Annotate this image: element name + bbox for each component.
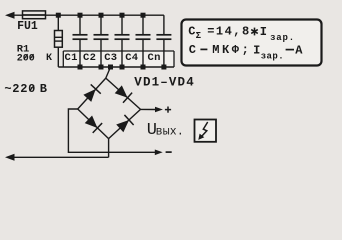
diode VD4 on bottom-right edge bbox=[115, 115, 133, 133]
svg-text:=14,8: =14,8 bbox=[207, 25, 251, 39]
svg-text:I: I bbox=[260, 25, 267, 39]
background paper bbox=[0, 0, 342, 169]
capacitor C4 bbox=[136, 15, 151, 67]
wire: bottom bus bbox=[58, 66, 174, 68]
node: bottom left AC arrow bbox=[5, 154, 15, 161]
svg-text:FU1: FU1 bbox=[17, 20, 38, 33]
label strip box around C1..Cn designators bbox=[63, 51, 174, 67]
capacitor C2 bbox=[94, 15, 109, 67]
node: left AC arrow bbox=[5, 12, 15, 19]
svg-text:Σ: Σ bbox=[196, 31, 202, 41]
svg-text:вых.: вых. bbox=[156, 125, 184, 138]
wire: left vertex to minus output bbox=[68, 109, 155, 152]
lighter paper patches bbox=[63, 20, 321, 142]
diode VD1 on left-top edge bbox=[82, 84, 100, 102]
svg-text:200: 200 bbox=[17, 53, 35, 64]
svg-text:VD1–VD4: VD1–VD4 bbox=[134, 75, 195, 89]
capacitor C1 bbox=[73, 15, 88, 67]
junction: fuse/R1 node on top bus bbox=[56, 13, 61, 18]
formula box bbox=[182, 20, 322, 66]
wire: diamond edge top-right bbox=[106, 78, 141, 109]
svg-text:зар.: зар. bbox=[270, 33, 295, 43]
svg-text:К: К bbox=[46, 53, 52, 64]
wire: diamond edge bottom-right bbox=[109, 109, 141, 138]
junction: C3 node on top bus bbox=[120, 13, 125, 18]
label: plus sign bbox=[165, 107, 171, 113]
diode VD2 on top-right edge bbox=[114, 84, 132, 102]
junction: C4 node on top bus bbox=[141, 13, 146, 18]
node: minus output arrow bbox=[155, 150, 163, 156]
wire: top bus bbox=[58, 14, 164, 16]
wire: AC line left arrow to fuse bbox=[9, 14, 58, 16]
capacitor C3 bbox=[115, 15, 130, 67]
wire: bottom AC rail bbox=[9, 156, 109, 158]
wire: diamond edge left-bottom bbox=[78, 109, 109, 139]
svg-text:В: В bbox=[40, 82, 47, 96]
svg-text:зар.: зар. bbox=[261, 52, 284, 62]
label: minus sign bbox=[166, 151, 172, 153]
resistor R1 bbox=[57, 15, 59, 30]
slashed zeros overlay bbox=[24, 54, 34, 91]
svg-text:C4: C4 bbox=[125, 52, 138, 64]
junction: C3 node on bottom bus bbox=[120, 65, 125, 70]
junction: Cn node on bottom bus bbox=[161, 65, 166, 70]
svg-text:I: I bbox=[253, 44, 260, 58]
svg-text:Cn: Cn bbox=[148, 52, 161, 64]
junction: C2 node on bottom bus bbox=[99, 65, 104, 70]
fuse FU1 bbox=[23, 11, 46, 19]
lightning hazard icon box bbox=[195, 120, 217, 142]
junction: C1 node on bottom bus bbox=[78, 65, 83, 70]
wire: bottom vertex drop bbox=[108, 139, 110, 158]
capacitor Cn bbox=[156, 15, 171, 67]
junction: bridge tap node on bottom bus bbox=[108, 65, 113, 70]
svg-text:С: С bbox=[189, 43, 196, 57]
svg-text:А: А bbox=[295, 43, 303, 57]
node: plus output arrow bbox=[155, 107, 163, 113]
junction: C2 node on top bus bbox=[99, 13, 104, 18]
lightning bolt arrow bbox=[202, 122, 208, 137]
junction: C4 node on bottom bus bbox=[141, 65, 146, 70]
wire: right vertex to plus output bbox=[141, 108, 156, 110]
wire: bus tap down to bridge top vertex bbox=[106, 67, 111, 78]
svg-text:C: C bbox=[188, 24, 195, 38]
svg-text:C3: C3 bbox=[104, 52, 117, 64]
svg-text:МКФ;: МКФ; bbox=[212, 43, 251, 57]
svg-text:C2: C2 bbox=[83, 52, 96, 64]
diode VD3 on left-bottom edge bbox=[84, 114, 102, 132]
junction: C1 node on top bus bbox=[78, 13, 83, 18]
svg-text:C1: C1 bbox=[65, 52, 78, 64]
wire: diamond edge left-top bbox=[78, 78, 106, 109]
